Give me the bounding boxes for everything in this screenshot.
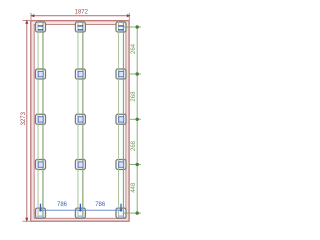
post P11 blue marker: [38, 25, 44, 30]
post P31 square (row 3, col 1): [36, 114, 46, 124]
post P21 blue marker: [38, 71, 43, 76]
post P41 square (row 4, col 1): [36, 160, 46, 170]
post P13 square (row 1, col 3): [116, 22, 126, 32]
post P42 blue marker: [78, 162, 83, 167]
svg-text:264: 264: [131, 43, 137, 54]
svg-text:786: 786: [57, 202, 68, 208]
svg-text:448: 448: [131, 182, 137, 193]
post P32 square (row 3, col 2): [75, 114, 85, 124]
svg-text:786: 786: [95, 202, 106, 208]
post P12 blue marker: [78, 25, 84, 30]
post P31 blue marker: [38, 117, 43, 122]
post P21 square (row 2, col 1): [36, 69, 46, 79]
stud S2 (vertical member, double green line): [78, 22, 83, 218]
post P13 blue marker: [118, 25, 124, 30]
post P22 blue marker: [78, 71, 83, 76]
dimension: right green spacing chain (264/268/268/448): [124, 25, 141, 215]
post P11 square (row 1, col 1): [36, 22, 46, 32]
post P53 blue marker: [118, 216, 124, 217]
post P23 square (row 2, col 3): [116, 69, 126, 79]
stud S1 (vertical member, double green line): [38, 22, 43, 218]
post P52 blue marker: [78, 216, 84, 217]
svg-text:268: 268: [131, 140, 137, 151]
post P33 square (row 3, col 3): [116, 114, 126, 124]
post P33 blue marker: [119, 117, 124, 122]
post P53 square (row 5, col 3): [116, 208, 126, 218]
post P51 blue marker: [38, 216, 44, 217]
svg-text:268: 268: [131, 91, 137, 102]
post P51 square (row 5, col 1): [36, 208, 46, 218]
post P43 blue marker: [119, 162, 124, 167]
post P43 square (row 4, col 3): [116, 160, 126, 170]
post P41 blue marker: [38, 162, 43, 167]
dimension: bottom blue post spacing 786 + 786: [39, 202, 122, 211]
stud S3 (vertical member, double green line): [119, 22, 124, 218]
svg-text:1872: 1872: [75, 10, 89, 16]
post P52 square (row 5, col 2): [75, 208, 85, 218]
post P42 square (row 4, col 2): [75, 160, 85, 170]
post P22 square (row 2, col 2): [75, 69, 85, 79]
post P23 blue marker: [119, 71, 124, 76]
post P12 square (row 1, col 2): [75, 22, 85, 32]
svg-text:3273: 3273: [21, 111, 27, 125]
dimension: left overall height 3273: [21, 20, 30, 222]
post P32 blue marker: [78, 117, 83, 122]
dimension: top overall width 1872: [31, 10, 131, 20]
wall frame outline (double line with pink band): [31, 21, 129, 222]
